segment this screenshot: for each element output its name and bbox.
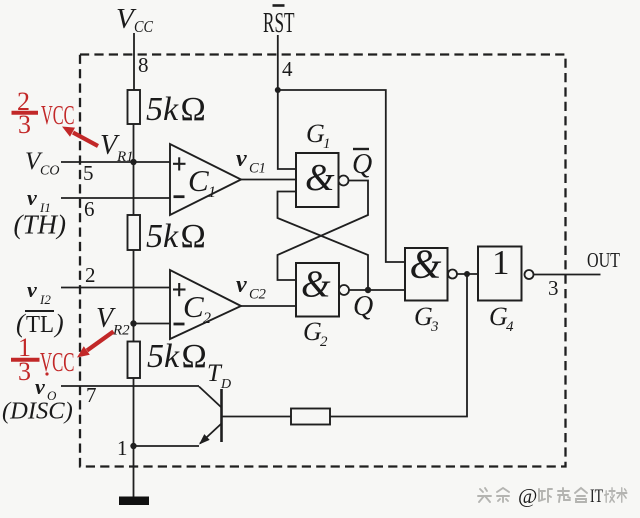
wire pin2 TL input	[61, 287, 171, 289]
svg-text:5k: 5k	[146, 91, 179, 128]
svg-text:v: v	[27, 277, 37, 302]
svg-text:5k: 5k	[147, 338, 180, 375]
svg-text:(DISC): (DISC)	[2, 398, 73, 425]
resistor base drive	[291, 409, 330, 425]
gate G2 nand	[296, 263, 339, 317]
wire node VR2 to C2	[134, 323, 172, 325]
node VR2 junction dot	[130, 320, 136, 326]
svg-text:7: 7	[86, 383, 97, 407]
wire Q feedback from G2 to G1 input	[278, 192, 369, 291]
svg-text:&: &	[410, 241, 442, 287]
resistor R3 5k	[128, 342, 141, 379]
node G3-G4 junction dot	[464, 271, 470, 277]
svg-text:): )	[53, 309, 64, 338]
node pin1 junction dot	[130, 443, 136, 449]
svg-text:v: v	[236, 272, 247, 298]
svg-text:4: 4	[282, 57, 293, 81]
wire G3G4 node down to base resistor	[330, 274, 467, 417]
node RST junction dot	[275, 87, 281, 93]
svg-text:1: 1	[323, 136, 331, 152]
svg-text:(TH): (TH)	[14, 210, 67, 240]
hanzi wo	[539, 489, 552, 502]
annotation arrow to VR1	[62, 127, 98, 147]
IC dashed boundary	[80, 55, 566, 467]
annotation arrow to VR2	[77, 332, 114, 358]
wire pin5 VCO input	[61, 161, 171, 163]
gate G2 output bubble	[339, 285, 349, 295]
wire G3 to G4	[457, 273, 478, 275]
svg-text:5: 5	[83, 161, 94, 185]
svg-text:C: C	[183, 289, 204, 324]
svg-text:R2: R2	[112, 323, 130, 339]
hanzi shu	[617, 488, 627, 502]
svg-text:v: v	[236, 146, 247, 172]
svg-text:CC: CC	[134, 17, 154, 36]
gate G1 output bubble	[339, 176, 349, 186]
wire Qbar from G1 to G2 input	[278, 181, 369, 281]
svg-text:Ω: Ω	[181, 91, 206, 128]
transistor TD emitter diagonal	[200, 424, 222, 444]
hanzi tou	[478, 488, 491, 502]
op-amp comparator C2	[170, 270, 241, 339]
svg-text:D: D	[220, 377, 231, 392]
gate G4 inverter	[478, 247, 522, 301]
Qbar overline	[353, 148, 369, 150]
transistor TD emitter arrowhead	[199, 434, 210, 444]
gate G3 nand	[405, 248, 448, 301]
svg-text:Q: Q	[352, 149, 372, 180]
wire vC1 C1 to G1	[241, 179, 296, 181]
svg-text:1: 1	[117, 436, 128, 460]
svg-text:1: 1	[208, 184, 216, 201]
svg-text:5k: 5k	[146, 218, 179, 255]
svg-text:3: 3	[18, 110, 31, 139]
svg-text:4: 4	[506, 319, 514, 335]
svg-text:Ω: Ω	[181, 218, 206, 255]
svg-text:8: 8	[138, 53, 149, 77]
RST overline	[273, 4, 285, 7]
svg-text:VCC: VCC	[40, 347, 75, 377]
wire R1 to node VR1	[133, 124, 135, 162]
resistor R2 5k	[128, 215, 141, 250]
svg-text:2: 2	[320, 334, 328, 350]
svg-text:C: C	[188, 163, 209, 198]
node Q junction dot	[365, 287, 371, 293]
wire OUT pin3	[534, 274, 601, 276]
wire Q from G2 to G3	[349, 289, 405, 291]
svg-text:1: 1	[492, 243, 510, 282]
wire base resistor to TD base	[222, 416, 292, 418]
svg-text:I2: I2	[39, 292, 51, 307]
wire RST down to G1	[278, 90, 296, 169]
svg-text:VCC: VCC	[41, 100, 75, 130]
svg-text:v: v	[35, 374, 45, 399]
svg-text:3: 3	[548, 276, 559, 300]
watermark latin	[518, 484, 603, 508]
gate G1 nand	[296, 153, 339, 207]
svg-text:IT: IT	[590, 486, 603, 507]
resistor R1 5k	[128, 90, 141, 124]
svg-text:RST: RST	[263, 8, 295, 39]
wire VCC stub	[133, 33, 135, 90]
TL overline	[25, 310, 54, 312]
svg-text:R1: R1	[116, 149, 134, 165]
hanzi long	[558, 488, 570, 502]
transistor TD base bar	[220, 389, 223, 442]
wire node VR1 to R2	[133, 162, 135, 215]
wire emitter to pin1 node	[134, 445, 200, 447]
svg-text:OUT: OUT	[587, 248, 620, 272]
wire pin6 TH input	[61, 197, 171, 199]
svg-text:&: &	[305, 157, 335, 199]
svg-text:Q: Q	[353, 291, 373, 322]
svg-text:3: 3	[18, 357, 31, 386]
wire RST branch to G3	[278, 90, 405, 262]
wire pin7 DISC collector	[61, 385, 199, 387]
ground symbol	[119, 497, 149, 506]
label C2 in comparator	[173, 283, 186, 324]
node VR1 junction dot	[130, 159, 136, 165]
svg-text:&: &	[301, 264, 331, 306]
op-amp comparator C1	[170, 144, 241, 215]
svg-text:v: v	[27, 185, 37, 210]
wire vC2 C2 to G2	[241, 305, 296, 307]
wire R2 to node VR2	[133, 250, 135, 342]
gate G3 output bubble	[448, 270, 457, 279]
wire RST stub pin4	[277, 35, 279, 90]
svg-text:C2: C2	[249, 287, 266, 303]
svg-text:6: 6	[84, 197, 95, 221]
gate G4 output bubble	[525, 270, 534, 279]
svg-text:3: 3	[430, 319, 439, 335]
hanzi hui	[575, 488, 587, 502]
hanzi tiao	[497, 488, 509, 502]
svg-text:CO: CO	[40, 164, 59, 179]
svg-text:@: @	[518, 484, 537, 508]
transistor TD collector diagonal	[199, 387, 222, 408]
hanzi ji	[605, 488, 615, 502]
watermark	[478, 488, 627, 502]
svg-text:C1: C1	[249, 161, 266, 177]
svg-text:2: 2	[203, 310, 211, 327]
svg-text:2: 2	[85, 263, 96, 287]
label C1 in comparator	[173, 157, 186, 196]
wire R3 to ground	[133, 378, 135, 497]
svg-text:Ω: Ω	[182, 338, 207, 375]
